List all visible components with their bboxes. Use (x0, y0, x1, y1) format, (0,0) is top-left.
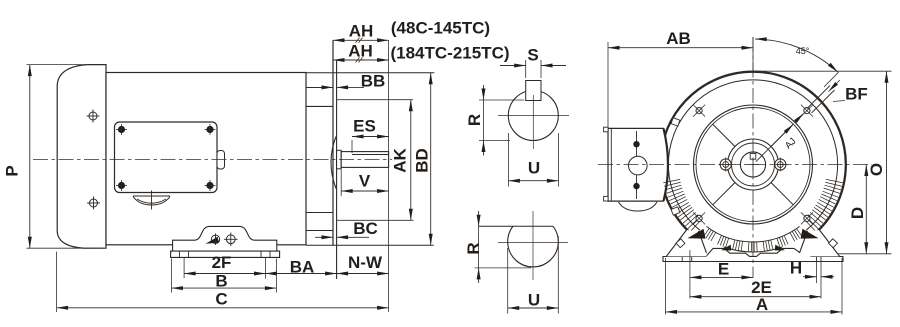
front box knockout hole (629, 156, 648, 175)
fin band termination wedges at plate (721, 245, 785, 251)
fan cover screw (lower) (87, 197, 100, 210)
C-face flange, front face line (332, 40, 334, 245)
junction box, front view (608, 128, 668, 201)
crosshair, upper section (498, 95, 569, 149)
bearing housing step lines, drive end (306, 88, 333, 231)
svg-text:BD: BD (413, 148, 432, 173)
svg-text:P: P (3, 165, 22, 176)
dimension BB (314, 72, 385, 91)
dimension 2F (184, 253, 265, 279)
bottom fin band fins (704, 228, 803, 251)
center cross (747, 159, 759, 171)
svg-text:R: R (465, 114, 484, 126)
shaft end vertical / extension line (388, 40, 390, 312)
front box mounting ears (604, 127, 609, 201)
front box drain boss (619, 202, 658, 211)
svg-text:BC: BC (353, 219, 378, 238)
dimension C (57, 252, 389, 312)
right gusset weld wedge (solid) (801, 229, 819, 239)
hub clamp screw right (773, 158, 787, 172)
45 degree arc annotation (755, 39, 838, 72)
body top line extension to flange (306, 72, 434, 74)
shaft circle with keyway (740, 152, 765, 177)
svg-text:V: V (359, 172, 371, 191)
svg-text:O: O (867, 163, 886, 176)
dimension N-W (337, 253, 389, 274)
svg-text:N-W: N-W (348, 253, 383, 272)
dimension R (lower) (464, 211, 531, 283)
shaft cross-section with key (upper) (508, 91, 558, 141)
svg-text:ES: ES (353, 117, 376, 136)
cooling fins, left band (663, 179, 702, 231)
dimension 2E (690, 278, 821, 297)
shaft shoulder stub (337, 150, 342, 169)
left gusset weld wedge (solid) (688, 229, 706, 239)
svg-text:45°: 45° (796, 46, 810, 56)
dimension AK (337, 100, 414, 221)
fan cover (rear bell), side view (57, 65, 106, 249)
dimension AB (608, 29, 753, 127)
outer shell circle (thick, open at bottom) (660, 72, 846, 237)
svg-text:C: C (215, 290, 227, 309)
body bottom line extension to flange (306, 244, 434, 246)
svg-text:(184TC-215TC): (184TC-215TC) (390, 44, 509, 63)
left foot gusset (666, 230, 706, 256)
dimension R (upper) (465, 85, 524, 156)
mounting foot, side view (171, 226, 280, 257)
hub circles (728, 139, 779, 190)
C-face flange, rear face line (extends to bottom dimension row) (336, 60, 338, 279)
right foot gusset (800, 230, 840, 256)
svg-text:E: E (718, 260, 729, 279)
svg-text:2F: 2F (212, 253, 232, 272)
svg-text:D: D (848, 207, 867, 219)
junction box corner screws (116, 124, 127, 135)
dimension U (lower) (508, 236, 559, 314)
fan cover screw (upper) (87, 110, 100, 123)
svg-text:B: B (215, 272, 227, 291)
dimension BC (315, 219, 378, 238)
dimension O (753, 71, 892, 254)
crosshair, lower section (498, 211, 568, 280)
foot bolt marker (right, crosshair) (224, 233, 238, 247)
svg-text:(48C-145TC): (48C-145TC) (391, 19, 490, 38)
dimension BA (266, 258, 337, 277)
dimension E (690, 250, 753, 299)
dimension U (upper) (508, 133, 558, 187)
dimension S (500, 46, 566, 79)
rim circle (open at bottom) (668, 80, 837, 230)
spokes at 45 degrees (713, 124, 794, 205)
dimension P (3, 65, 104, 249)
dimension AH (48C-145TC) (333, 22, 389, 43)
svg-text:A: A (756, 295, 768, 314)
dimension H (790, 259, 834, 299)
svg-text:BA: BA (290, 258, 315, 277)
svg-text:S: S (527, 46, 538, 65)
dimension B (171, 259, 276, 293)
svg-text:AK: AK (391, 148, 410, 173)
cooling fins, right band (804, 179, 843, 231)
svg-text:U: U (528, 291, 540, 310)
svg-text:AB: AB (666, 29, 691, 48)
base plate, front view (663, 248, 843, 261)
frame note (184TC-215TC) (390, 44, 509, 63)
bottom fin band outer arc (724, 247, 782, 252)
dimension V (341, 170, 388, 197)
dimension BD (413, 73, 432, 246)
foot bolt marker (left, with section arrow) (206, 234, 220, 246)
svg-text:BB: BB (361, 72, 386, 91)
frame note (48C-145TC) (391, 19, 490, 38)
side view centerline (33, 159, 392, 161)
key sticking out of keyseat (526, 81, 541, 101)
svg-text:AH: AH (349, 22, 374, 41)
dimension D (848, 165, 867, 254)
base plate bolt slot marks (682, 257, 821, 262)
front view centerlines (598, 37, 872, 278)
AJ radial arrow (756, 124, 799, 162)
front box screws (633, 141, 639, 189)
junction box, side view (115, 122, 225, 193)
shaft keyseat line (352, 154, 389, 156)
bottom fin band inner arc (706, 226, 799, 242)
bearing boss arc at shaft root (331, 137, 336, 189)
shaft, side view (341, 152, 388, 168)
shaft cross-section with keyseat flat (lower) (479, 226, 559, 267)
casting lug, right lower (829, 239, 838, 248)
C-face ring circles (694, 105, 813, 224)
flange bolt holes at 45 deg with x-ticks (693, 105, 813, 225)
BF tapped hole annotation (795, 72, 868, 122)
hub clamp screw left (719, 158, 733, 172)
dimension AH (184TC-215TC) (333, 42, 389, 63)
svg-text:U: U (528, 159, 540, 178)
drain boss below junction box (133, 191, 170, 210)
dimension A (666, 258, 843, 315)
casting lugs, left side (671, 118, 680, 126)
svg-text:R: R (464, 242, 483, 254)
dimension ES (352, 117, 389, 154)
motor body, side view (106, 73, 306, 245)
svg-text:BF: BF (845, 85, 868, 104)
svg-text:H: H (790, 259, 802, 278)
svg-text:AH: AH (348, 42, 373, 61)
